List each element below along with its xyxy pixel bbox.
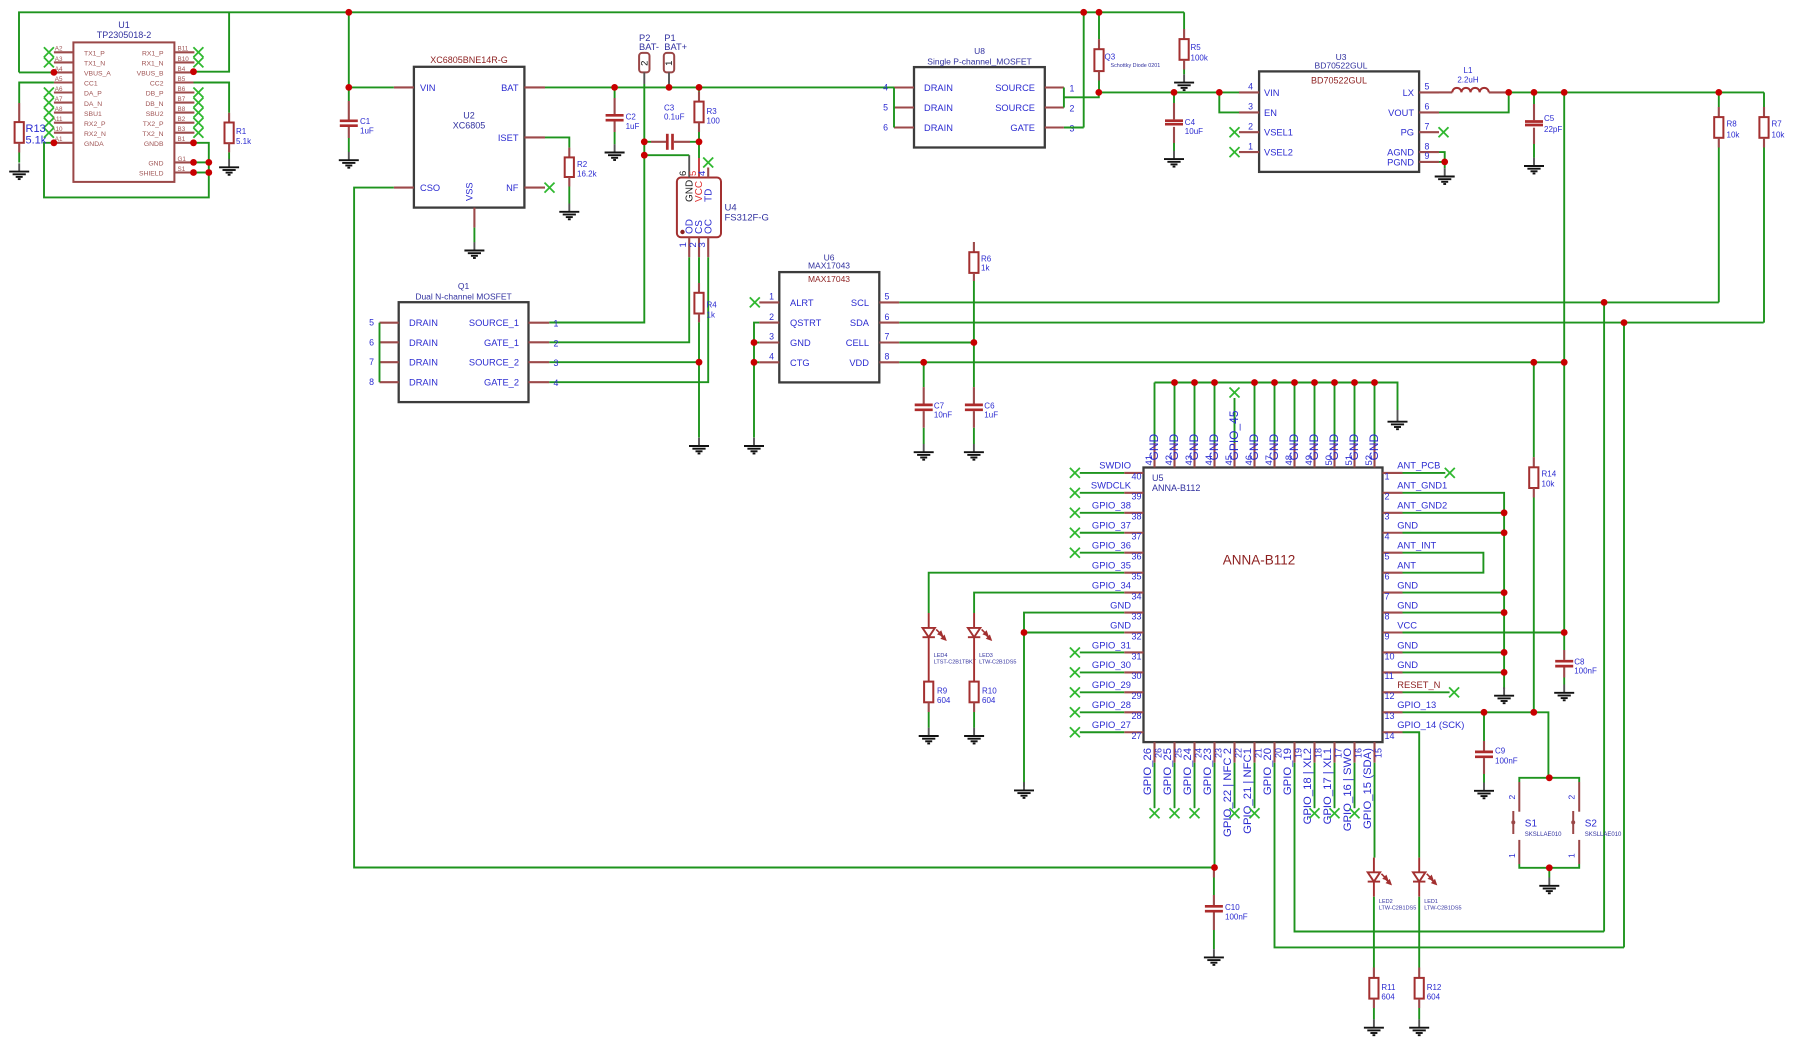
U8 pin 6 DRAIN [894, 126, 914, 128]
svg-text:B4: B4 [178, 66, 186, 73]
svg-text:RESET_N: RESET_N [1397, 679, 1440, 690]
wire GND pin 4 join [1403, 532, 1505, 534]
svg-text:22pF: 22pF [1544, 125, 1562, 134]
svg-text:XC6805BNE14R-G: XC6805BNE14R-G [430, 55, 508, 65]
U5 pin 17 GPIO_17 | XL1 [1333, 742, 1335, 763]
U5 pin 28 GPIO_28 [1124, 711, 1143, 713]
U5 pin 46 GND [1253, 443, 1255, 468]
U5 pin 44 GND [1213, 443, 1215, 468]
svg-text:604: 604 [1381, 993, 1395, 1002]
U4 pin 5 VCC [698, 158, 700, 178]
svg-text:B3: B3 [178, 126, 186, 133]
svg-text:R14: R14 [1542, 470, 1557, 479]
wire U8 sources bracket [1063, 88, 1065, 108]
svg-text:36: 36 [1131, 552, 1141, 562]
wire VCC row [1403, 632, 1565, 634]
svg-text:R2: R2 [577, 160, 588, 169]
svg-text:3: 3 [1070, 124, 1075, 134]
svg-text:R11: R11 [1381, 983, 1396, 992]
U3 pin 8 AGND [1419, 151, 1439, 153]
U1 pin A8 SBU1 [54, 112, 74, 114]
svg-text:GPIO_35: GPIO_35 [1092, 559, 1131, 570]
svg-text:10k: 10k [1542, 480, 1556, 489]
U1 pin A4 VBUS_A [54, 71, 74, 73]
switch S1 SKSLLAE010 [1518, 782, 1520, 812]
U5 pin 34 GPIO_34 [1124, 592, 1143, 594]
svg-text:A3: A3 [55, 56, 63, 63]
svg-text:R13: R13 [26, 123, 46, 135]
svg-text:A8: A8 [55, 106, 63, 113]
svg-text:GPIO_18 | XL2: GPIO_18 | XL2 [1302, 748, 1314, 824]
svg-text:R5: R5 [1191, 43, 1202, 52]
wire rail to VIN [348, 12, 350, 87]
svg-text:46: 46 [1244, 455, 1255, 466]
U4 pin 2 CS [698, 237, 700, 257]
svg-text:A6: A6 [55, 86, 63, 93]
svg-text:B8: B8 [178, 106, 186, 113]
svg-text:VBUS_B: VBUS_B [137, 71, 164, 78]
svg-text:GND: GND [790, 338, 811, 348]
svg-text:GPIO_27: GPIO_27 [1092, 719, 1131, 730]
svg-text:B7: B7 [178, 96, 186, 103]
svg-text:15: 15 [1374, 748, 1384, 758]
svg-text:3: 3 [1385, 512, 1390, 522]
svg-text:GNDB: GNDB [144, 141, 164, 148]
wire VBUS top rail [19, 12, 1184, 72]
U5 pin 42 GND [1173, 443, 1175, 468]
svg-text:1k: 1k [707, 311, 716, 320]
svg-text:ANNA-B112: ANNA-B112 [1223, 553, 1296, 568]
no-connect NF [545, 183, 555, 193]
Q1 pin 3 SOURCE_2 [529, 361, 550, 363]
svg-text:VDD: VDD [849, 358, 869, 368]
svg-text:R9: R9 [937, 687, 948, 696]
wire GPIO_22 stub [1234, 763, 1236, 809]
svg-text:SBU1: SBU1 [84, 111, 102, 118]
wire RESET_N [1403, 691, 1450, 693]
U5 pin 15 GPIO_15 (SDA) [1373, 742, 1375, 763]
wire SHIELD pin to loop [194, 172, 209, 174]
svg-text:8: 8 [1385, 611, 1390, 621]
svg-text:51: 51 [1344, 455, 1355, 466]
svg-text:C7: C7 [934, 401, 945, 410]
U3 pin 2 VSEL1 [1239, 131, 1259, 133]
U5 pin 52 GND [1373, 443, 1375, 468]
U5 pin 37 GPIO_37 [1124, 532, 1143, 534]
svg-text:2: 2 [640, 61, 651, 66]
svg-text:DRAIN: DRAIN [409, 338, 438, 348]
svg-text:3: 3 [697, 242, 708, 247]
resistor R12 604 [1418, 968, 1420, 978]
U2 pin ISET [524, 136, 545, 138]
ground under C2 [605, 144, 625, 160]
wire CELL net [899, 342, 974, 344]
svg-text:B10: B10 [178, 56, 190, 63]
svg-text:50: 50 [1324, 455, 1335, 466]
svg-text:VBUS_A: VBUS_A [84, 71, 111, 78]
U8 pin 4 DRAIN [894, 86, 914, 88]
svg-text:1: 1 [1385, 472, 1390, 482]
U6 pin 2 QSTRT [759, 322, 779, 324]
wire BAT bus [545, 86, 894, 88]
connector P1 BAT+ [664, 53, 674, 73]
wire AGND PGND bracket [1439, 152, 1445, 162]
wire S1 S2 bottom rail [1519, 864, 1579, 868]
wire Q1 SOURCE_2 [549, 361, 699, 363]
Q1 pin 6 DRAIN [380, 341, 399, 343]
svg-text:GNDA: GNDA [84, 141, 104, 148]
svg-text:2: 2 [1567, 795, 1577, 800]
U5 pin 22 GPIO_22 | NFC 2 [1233, 742, 1235, 763]
U5 pin 41 GND [1153, 443, 1155, 468]
svg-text:C5: C5 [1544, 114, 1555, 123]
wire GPIO_18 stub [1314, 763, 1316, 809]
svg-text:OC: OC [703, 219, 714, 234]
P2 pin to wire [643, 72, 645, 84]
svg-text:7: 7 [1385, 591, 1390, 601]
svg-text:C1: C1 [360, 117, 371, 126]
module U5 ANNA-B112 body [1144, 468, 1383, 743]
svg-text:C8: C8 [1574, 658, 1585, 667]
U5 pin 1 ANT_PCB [1383, 472, 1403, 474]
svg-text:DRAIN: DRAIN [924, 103, 953, 113]
svg-text:1uF: 1uF [360, 126, 374, 135]
svg-text:GPIO_13: GPIO_13 [1397, 699, 1436, 710]
svg-text:3: 3 [554, 358, 559, 368]
resistor R2 16.2k [545, 137, 569, 147]
svg-text:GPIO_25: GPIO_25 [1162, 748, 1174, 795]
U5 pin 38 GPIO_38 [1124, 512, 1143, 514]
svg-text:10: 10 [1385, 651, 1395, 661]
svg-text:5.1k: 5.1k [236, 137, 252, 146]
svg-text:7: 7 [369, 357, 374, 367]
svg-text:30: 30 [1131, 671, 1141, 681]
svg-text:EN: EN [1264, 108, 1277, 118]
resistor R5 100k [1183, 12, 1185, 29]
svg-text:LTW-C2B1DS5: LTW-C2B1DS5 [1424, 905, 1461, 911]
svg-text:S2: S2 [1585, 819, 1598, 830]
svg-text:GPIO_22 | NFC 2: GPIO_22 | NFC 2 [1222, 748, 1234, 837]
svg-text:4: 4 [697, 171, 708, 176]
svg-text:1: 1 [1567, 853, 1577, 858]
svg-text:LED4: LED4 [934, 653, 948, 659]
protection IC U4 FS312F-G body [677, 178, 721, 238]
ground under U2 VSS [464, 242, 484, 258]
svg-text:41: 41 [1144, 455, 1155, 466]
svg-text:27: 27 [1131, 731, 1141, 741]
U1 pin B4 VBUS_B [174, 71, 194, 73]
svg-text:DA_N: DA_N [84, 101, 102, 108]
wire VBUS_B to rail [194, 12, 230, 71]
U8 pin 2 SOURCE [1045, 106, 1064, 108]
U5 pin 2 ANT_GND1 [1383, 492, 1403, 494]
U3 pin 4 VIN [1239, 91, 1259, 93]
svg-text:R8: R8 [1727, 119, 1738, 128]
svg-text:DB_N: DB_N [145, 101, 163, 108]
connector U1 TP2305018-2 body [73, 42, 174, 182]
svg-text:45: 45 [1224, 455, 1235, 466]
led LED1 LTW-C2B1DS5 [1418, 858, 1420, 873]
U2 pin VIN [394, 86, 414, 88]
svg-text:TX2_N: TX2_N [142, 131, 163, 138]
svg-text:DRAIN: DRAIN [409, 358, 438, 368]
U3 pin 3 EN [1239, 111, 1259, 113]
ground under C4 [1164, 151, 1184, 167]
svg-text:GPIO_17 | XL1: GPIO_17 | XL1 [1322, 748, 1334, 824]
svg-text:LED2: LED2 [1379, 899, 1393, 905]
svg-text:16.2k: 16.2k [577, 170, 598, 179]
capacitor C5 22pF [1533, 92, 1535, 104]
svg-text:GPIO_34: GPIO_34 [1092, 579, 1131, 590]
wire Q1 drains bracket [379, 323, 381, 383]
svg-text:GND: GND [148, 161, 163, 168]
svg-text:100nF: 100nF [1495, 757, 1518, 766]
svg-text:5: 5 [1385, 552, 1390, 562]
no-connect TD [703, 158, 713, 168]
svg-text:3: 3 [1248, 102, 1253, 112]
svg-text:GPIO_45: GPIO_45 [1227, 410, 1241, 460]
ground under C10 [1204, 949, 1224, 965]
no-connect VSEL1 [1230, 127, 1240, 137]
resistor R1 [228, 103, 230, 113]
svg-text:10nF: 10nF [934, 411, 952, 420]
svg-text:7: 7 [885, 332, 890, 342]
U5 pin 33 GND [1124, 611, 1143, 613]
svg-text:ANT_PCB: ANT_PCB [1397, 460, 1440, 471]
svg-text:TD: TD [703, 189, 714, 202]
svg-text:ANT_INT: ANT_INT [1397, 540, 1436, 551]
svg-text:GATE: GATE [1010, 123, 1035, 133]
U5 pin 29 GPIO_29 [1124, 691, 1143, 693]
svg-text:Single P-channel_MOSFET: Single P-channel_MOSFET [927, 56, 1031, 66]
U5 pin 51 GND [1353, 443, 1355, 468]
resistor R7 10k [1763, 107, 1765, 117]
U5 pin 24 GPIO_24 [1193, 742, 1195, 763]
svg-text:SKSLLAE010: SKSLLAE010 [1585, 832, 1622, 838]
U1 pin B1 GNDB [174, 142, 194, 144]
U1 pin A10 RX2_N [54, 132, 74, 134]
svg-text:604: 604 [982, 696, 996, 705]
U1 pin B6 DB_P [174, 91, 194, 93]
svg-text:R12: R12 [1427, 983, 1442, 992]
svg-text:1uF: 1uF [984, 411, 998, 420]
U3 pin 5 LX [1419, 91, 1439, 93]
wire R7 corner [1763, 92, 1765, 107]
svg-text:47: 47 [1264, 455, 1275, 466]
svg-text:GPIO_37: GPIO_37 [1092, 520, 1131, 531]
svg-text:A7: A7 [55, 96, 63, 103]
wire GPIO_16 stub [1354, 763, 1356, 809]
svg-text:1k: 1k [981, 264, 990, 273]
svg-text:GND: GND [1397, 520, 1418, 531]
svg-text:ANNA-B112: ANNA-B112 [1152, 483, 1200, 493]
U5 pin 12 RESET_N [1383, 691, 1403, 693]
U1 pin B7 DB_N [174, 102, 194, 104]
no-connect ANT_PCB [1445, 468, 1455, 478]
Q1 pin 5 DRAIN [380, 322, 399, 324]
svg-text:5: 5 [1425, 82, 1430, 92]
wire GND pin 7 join [1403, 592, 1505, 594]
svg-text:10k: 10k [1772, 130, 1786, 139]
svg-text:VSEL1: VSEL1 [1264, 128, 1293, 138]
U5 pin 5 ANT_INT [1383, 552, 1403, 554]
svg-text:1: 1 [664, 61, 675, 66]
svg-text:LTW-C2B1DS5: LTW-C2B1DS5 [979, 660, 1016, 666]
svg-text:A5: A5 [55, 76, 63, 83]
svg-text:A11: A11 [52, 116, 63, 123]
svg-text:LX: LX [1403, 88, 1414, 98]
svg-text:DRAIN: DRAIN [924, 83, 953, 93]
U1 pin A2 TX1_P [54, 51, 74, 53]
svg-text:4: 4 [554, 378, 559, 388]
U4 pin 3 OC [707, 237, 709, 257]
svg-text:CSO: CSO [420, 183, 440, 193]
wire GPIO_20 to SDA [1275, 763, 1625, 948]
svg-text:29: 29 [1131, 691, 1141, 701]
svg-text:40: 40 [1131, 472, 1141, 482]
wire GPIO_34 to LED3 [974, 593, 1124, 613]
svg-text:VIN: VIN [1264, 88, 1280, 98]
svg-text:6: 6 [1425, 102, 1430, 112]
wire GPIO_14 to LED1 [1403, 732, 1420, 857]
svg-text:Q3: Q3 [1105, 52, 1116, 61]
U5 pin 6 ANT [1383, 572, 1403, 574]
regulator U3 BD70522GUL body [1259, 71, 1419, 171]
svg-text:38: 38 [1131, 512, 1141, 522]
resistor R3 100 [698, 87, 700, 91]
U5 pin 21 GPIO_21 | NFC1 [1253, 742, 1255, 763]
capacitor C9 100nF [1483, 712, 1485, 741]
svg-text:0.1uF: 0.1uF [664, 113, 685, 122]
svg-text:CC2: CC2 [150, 81, 164, 88]
svg-text:QSTRT: QSTRT [790, 318, 822, 328]
no-connect VSEL2 [1230, 147, 1240, 157]
capacitor C2 [614, 87, 616, 98]
svg-text:5: 5 [885, 292, 890, 302]
wire GND pin 3 join [1403, 512, 1505, 514]
svg-text:BD70522GUL: BD70522GUL [1315, 61, 1368, 71]
svg-text:5.1k: 5.1k [26, 135, 47, 147]
capacitor C6 1uF [973, 387, 975, 403]
svg-text:FS312F-G: FS312F-G [725, 212, 769, 223]
wire U6 GND stub join [754, 342, 759, 344]
svg-text:U2: U2 [463, 111, 475, 121]
wire GPIO_26 stub [1154, 763, 1156, 809]
svg-text:U5: U5 [1152, 473, 1164, 483]
svg-text:44: 44 [1204, 455, 1215, 466]
svg-text:C10: C10 [1225, 903, 1240, 912]
svg-text:B11: B11 [178, 46, 189, 53]
wire OD to Q1 GATE_1 [549, 257, 689, 342]
svg-text:B6: B6 [178, 86, 186, 93]
wire ANT_PCB [1403, 472, 1446, 474]
svg-text:39: 39 [1131, 492, 1141, 502]
svg-text:DB_P: DB_P [146, 91, 164, 98]
svg-text:CELL: CELL [846, 338, 869, 348]
U6 pin 4 CTG [759, 361, 779, 363]
ground under R13 [9, 163, 29, 179]
U1 pin A3 TX1_N [54, 61, 74, 63]
svg-text:GND: GND [1397, 579, 1418, 590]
svg-text:R7: R7 [1772, 119, 1783, 128]
U5 pin 3 ANT_GND2 [1383, 512, 1403, 514]
wire GPIO_24 stub [1194, 763, 1196, 809]
U5 pin 48 GND [1293, 443, 1295, 468]
svg-text:2: 2 [769, 312, 774, 322]
svg-text:14: 14 [1385, 731, 1395, 741]
svg-text:GND: GND [1110, 619, 1131, 630]
wire sources to BAT+ node [1064, 92, 1099, 97]
U8 pin 1 SOURCE [1045, 86, 1064, 88]
svg-text:R6: R6 [981, 254, 992, 263]
U5 pin 7 GND [1383, 592, 1403, 594]
U5 pin 49 GND [1313, 443, 1315, 468]
U2 pin CSO [394, 187, 414, 189]
U8 pin 5 DRAIN [894, 106, 914, 108]
Q1 pin 4 GATE_2 [529, 381, 550, 383]
svg-text:31: 31 [1131, 651, 1141, 661]
svg-text:RX2_N: RX2_N [84, 131, 106, 138]
svg-text:5: 5 [369, 318, 374, 328]
ground under R1 [219, 159, 239, 175]
svg-text:SOURCE_1: SOURCE_1 [469, 318, 519, 328]
svg-text:CTG: CTG [790, 358, 810, 368]
svg-text:8: 8 [369, 377, 374, 387]
wire rail to U8 gate [1083, 12, 1085, 127]
capacitor C8 100nF [1563, 650, 1565, 660]
U5 pin 10 GND [1383, 651, 1403, 653]
svg-text:NF: NF [506, 183, 519, 193]
svg-text:GPIO_15 (SDA): GPIO_15 (SDA) [1362, 748, 1374, 829]
svg-text:48: 48 [1284, 455, 1295, 466]
U2 pin NF [524, 187, 545, 189]
resistor R9 604 [924, 682, 933, 703]
svg-text:9: 9 [1425, 151, 1430, 161]
svg-text:100nF: 100nF [1574, 667, 1597, 676]
capacitor C1 [348, 87, 350, 101]
resistor R8 10k [1718, 92, 1720, 107]
svg-text:U1: U1 [118, 20, 130, 30]
wire EN bracket [1219, 92, 1239, 112]
U4 pin1 indicator dot [680, 230, 684, 234]
svg-text:VSS: VSS [464, 182, 474, 201]
resistor R13 [18, 103, 20, 122]
svg-text:SBU2: SBU2 [146, 111, 164, 118]
wire right GND bus [1403, 493, 1505, 688]
svg-text:GPIO_31: GPIO_31 [1092, 639, 1131, 650]
U5 pin 27 GPIO_27 [1124, 731, 1143, 733]
svg-text:C6: C6 [984, 401, 995, 410]
U1 pin A6 DA_P [54, 91, 74, 93]
wire GND pin to loop [194, 161, 209, 163]
U5 pin 25 GPIO_25 [1173, 742, 1175, 763]
svg-text:3: 3 [769, 332, 774, 342]
svg-text:C9: C9 [1495, 747, 1506, 756]
ground under U3 [1435, 168, 1455, 184]
U1 pin B10 RX1_N [174, 61, 194, 63]
U8 pin 3 GATE [1045, 126, 1064, 128]
Q1 pin 1 SOURCE_1 [529, 322, 550, 324]
U5 pin 32 GND [1124, 631, 1143, 633]
svg-text:GPIO_30: GPIO_30 [1092, 659, 1131, 670]
wire GPIO_35 to LED4 [929, 573, 1124, 613]
svg-text:ANT: ANT [1397, 559, 1416, 570]
svg-text:6: 6 [885, 312, 890, 322]
svg-text:10uF: 10uF [1185, 127, 1203, 136]
svg-text:2: 2 [1385, 492, 1390, 502]
svg-text:SDA: SDA [850, 318, 870, 328]
wire VSS to ground [473, 228, 475, 243]
